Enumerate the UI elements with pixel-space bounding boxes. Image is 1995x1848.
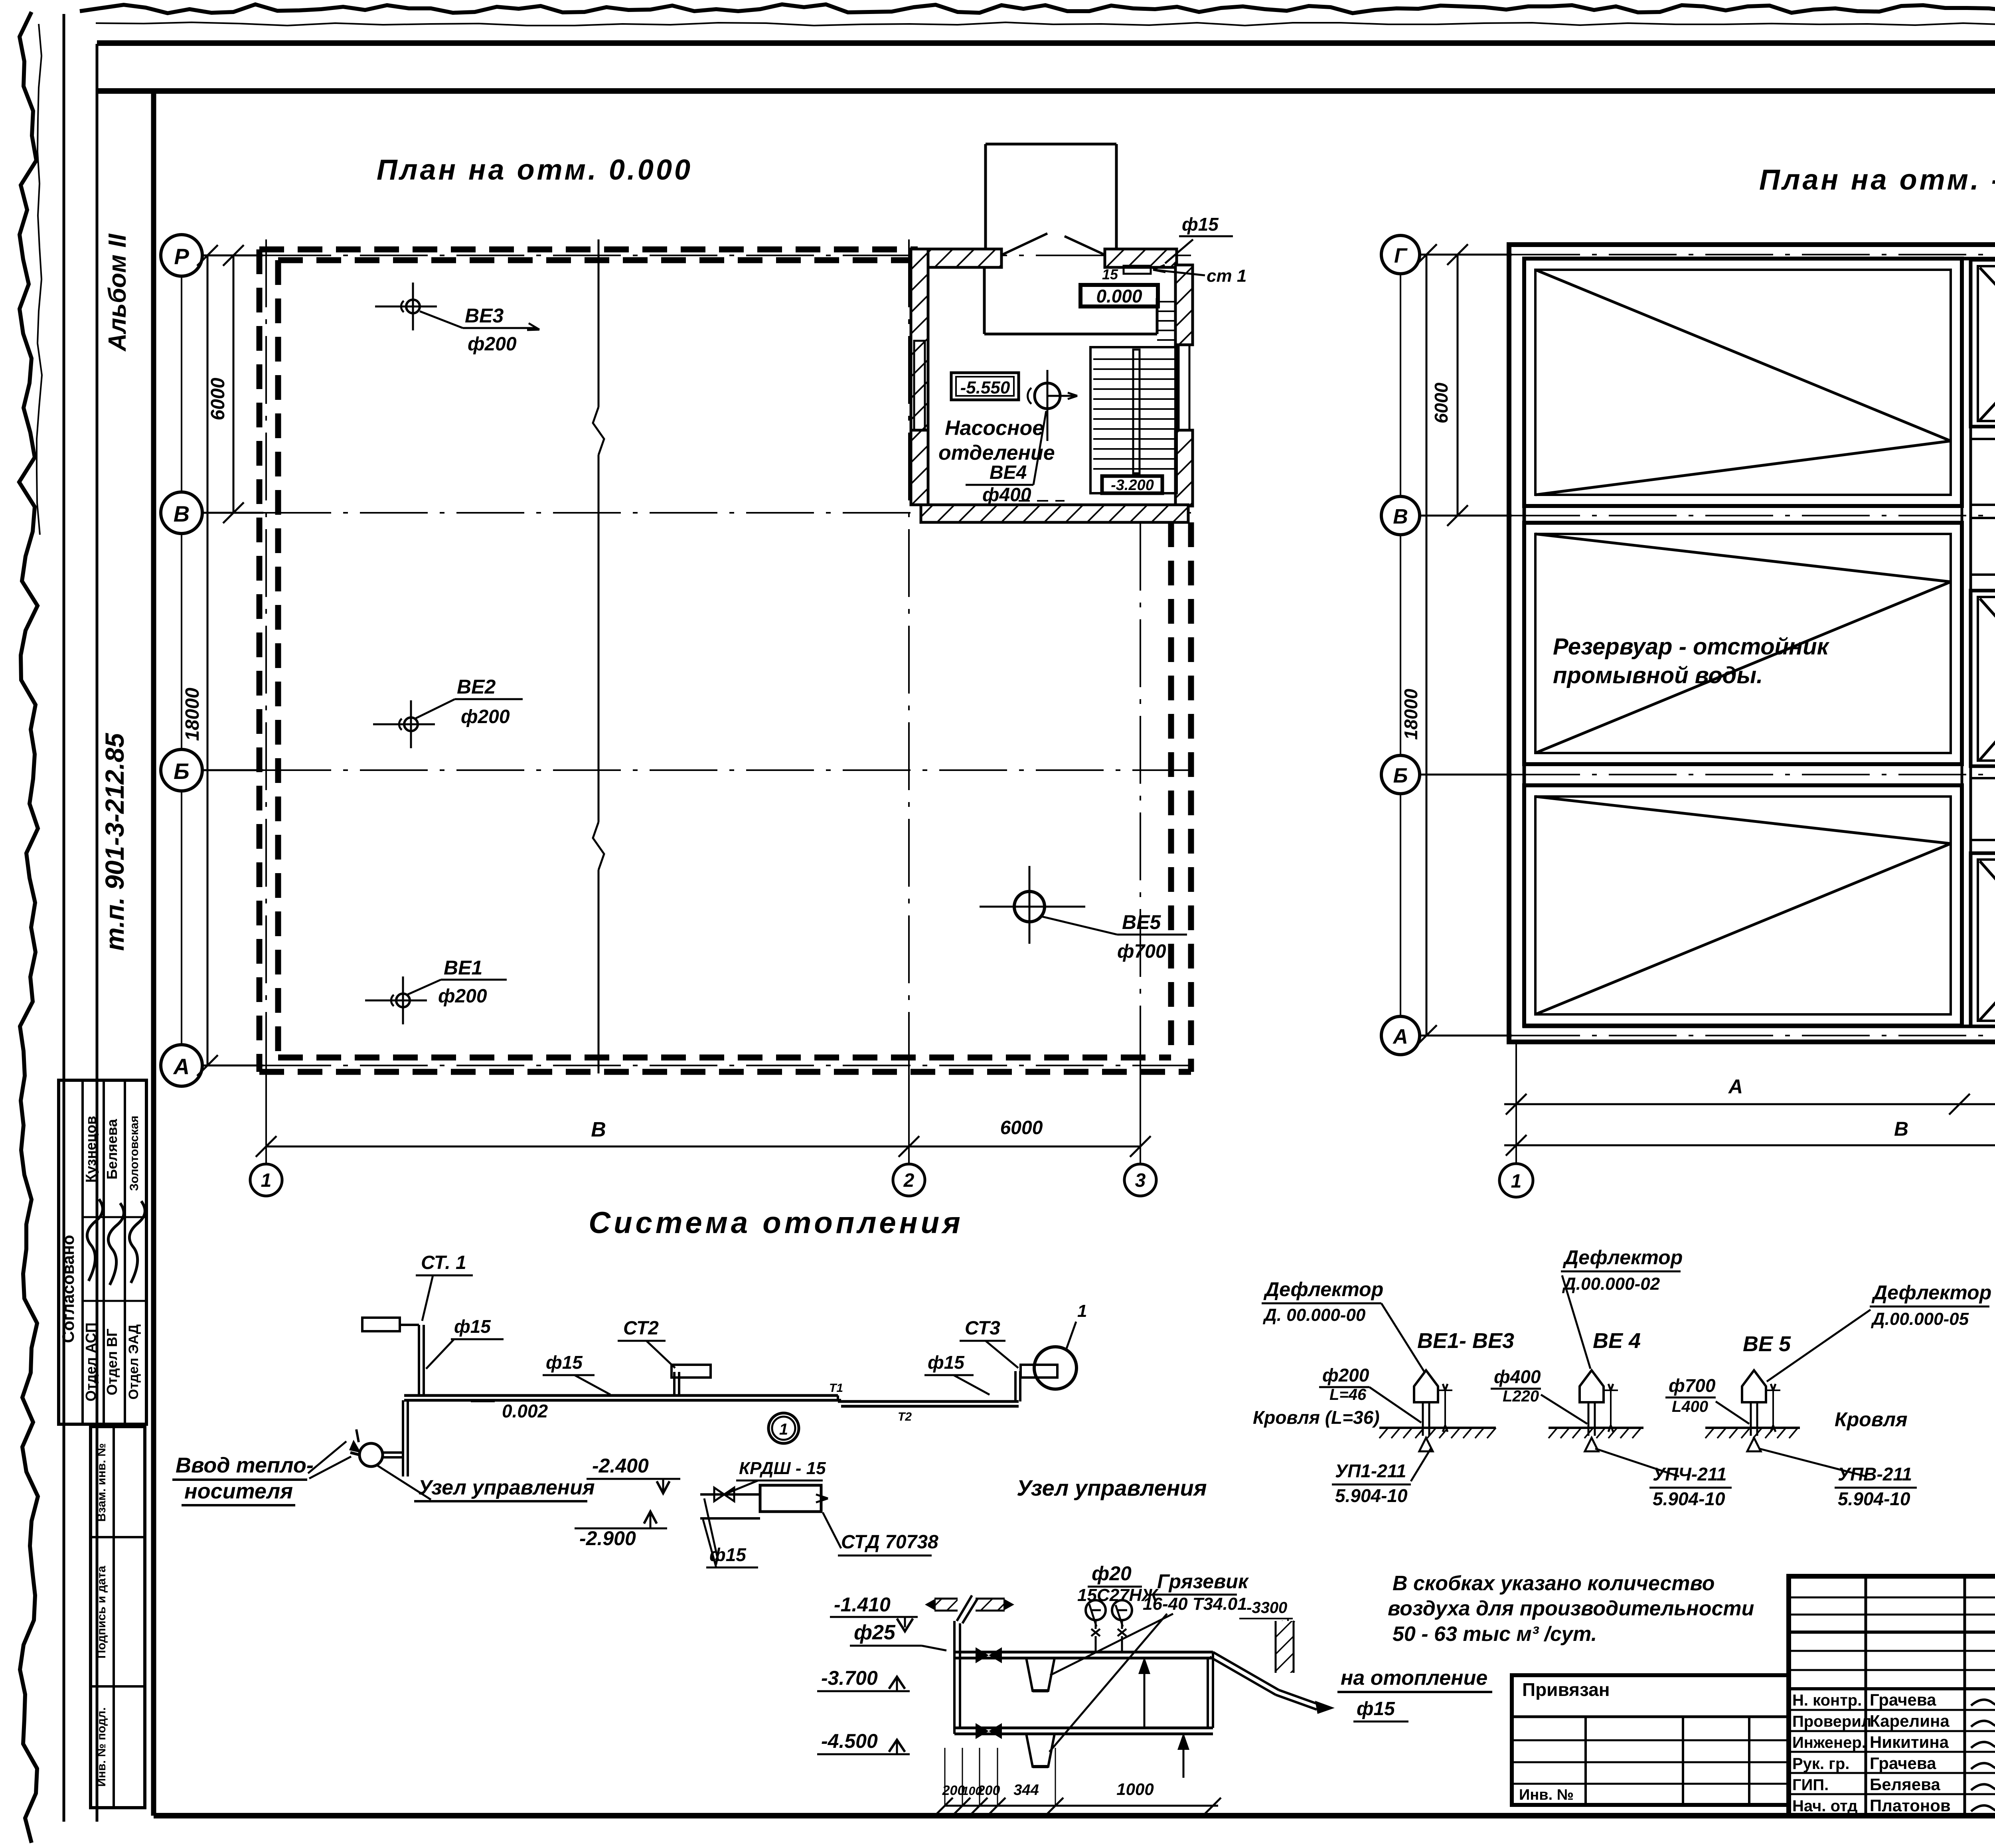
svg-text:1: 1 — [261, 1170, 272, 1191]
svg-text:18000: 18000 — [182, 688, 203, 741]
svg-text:ф200: ф200 — [468, 334, 517, 355]
svg-text:ф15: ф15 — [1182, 214, 1219, 235]
svg-text:15: 15 — [1102, 266, 1118, 283]
svg-text:Кровля (L=36): Кровля (L=36) — [1253, 1407, 1380, 1428]
svg-text:Беляева: Беляева — [1870, 1775, 1940, 1794]
svg-text:План на отм. 0.000: План на отм. 0.000 — [377, 154, 693, 186]
svg-text:носителя: носителя — [184, 1479, 293, 1503]
svg-text:Взам. инв. №: Взам. инв. № — [95, 1443, 108, 1522]
svg-text:В скобках указано количество: В скобках указано количество — [1393, 1572, 1715, 1595]
svg-text:ф15: ф15 — [546, 1352, 583, 1373]
svg-text:Согласовано: Согласовано — [59, 1235, 77, 1343]
svg-text:1: 1 — [1511, 1171, 1522, 1192]
svg-text:Г: Г — [1394, 244, 1408, 267]
svg-text:-3.200: -3.200 — [1111, 477, 1154, 494]
svg-text:ВЕ4: ВЕ4 — [990, 462, 1027, 483]
svg-text:-3.700: -3.700 — [821, 1667, 878, 1689]
svg-text:Рук. гр.: Рук. гр. — [1792, 1755, 1849, 1773]
svg-text:УПВ-211: УПВ-211 — [1838, 1464, 1912, 1484]
svg-text:0.002: 0.002 — [502, 1401, 548, 1421]
svg-text:В: В — [174, 501, 190, 526]
svg-text:6000: 6000 — [207, 378, 229, 420]
svg-text:СТ2: СТ2 — [623, 1318, 659, 1339]
svg-text:План на отм. -0.650: План на отм. -0.650 — [1759, 164, 1995, 196]
svg-text:Проверил: Проверил — [1792, 1713, 1871, 1730]
svg-text:Отдел АСП: Отдел АСП — [83, 1322, 99, 1401]
svg-text:Грязевик: Грязевик — [1157, 1570, 1249, 1593]
svg-text:Подпись и дата: Подпись и дата — [95, 1565, 108, 1658]
svg-text:А: А — [173, 1054, 190, 1079]
svg-text:Д. 00.000-00: Д. 00.000-00 — [1262, 1305, 1366, 1325]
svg-text:6000: 6000 — [1431, 382, 1452, 423]
svg-text:т.п. 901-3-212.85: т.п. 901-3-212.85 — [100, 733, 129, 951]
svg-text:СТ. 1: СТ. 1 — [421, 1252, 466, 1273]
svg-text:-1.410: -1.410 — [834, 1593, 891, 1616]
svg-text:Р: Р — [174, 244, 189, 269]
svg-text:Дефлектор: Дефлектор — [1562, 1246, 1683, 1269]
svg-text:Система отопления: Система отопления — [589, 1206, 964, 1240]
svg-text:ВЕ3: ВЕ3 — [465, 304, 504, 327]
svg-text:КРДШ - 15: КРДШ - 15 — [739, 1459, 826, 1478]
svg-text:ф700: ф700 — [1669, 1375, 1716, 1396]
svg-text:Золотовская: Золотовская — [128, 1116, 141, 1191]
svg-text:1: 1 — [779, 1421, 788, 1438]
svg-text:ф400: ф400 — [982, 484, 1031, 506]
svg-text:Д.00.000-05: Д.00.000-05 — [1871, 1309, 1969, 1329]
svg-text:ф200: ф200 — [1322, 1365, 1369, 1386]
svg-text:Грачева: Грачева — [1870, 1754, 1936, 1773]
svg-text:Привязан: Привязан — [1522, 1679, 1610, 1700]
svg-text:Инв. № подл.: Инв. № подл. — [95, 1707, 108, 1787]
svg-text:1: 1 — [1077, 1301, 1087, 1321]
svg-text:3: 3 — [1135, 1170, 1146, 1191]
svg-text:18000: 18000 — [1400, 689, 1421, 740]
svg-text:Кузнецов: Кузнецов — [83, 1116, 99, 1182]
svg-text:Альбом II: Альбом II — [104, 233, 131, 352]
svg-text:Нач. отд: Нач. отд — [1792, 1797, 1857, 1815]
svg-text:-2.900: -2.900 — [579, 1527, 636, 1550]
svg-text:ст 1: ст 1 — [1207, 266, 1246, 286]
svg-text:ф200: ф200 — [438, 986, 487, 1007]
svg-text:ф15: ф15 — [1357, 1698, 1395, 1720]
svg-text:1000: 1000 — [1116, 1780, 1154, 1799]
svg-text:Дефлектор: Дефлектор — [1263, 1278, 1383, 1301]
svg-text:ф700: ф700 — [1117, 941, 1166, 962]
svg-text:Узел управления: Узел управления — [418, 1476, 595, 1499]
svg-text:Б: Б — [1393, 764, 1408, 787]
svg-text:ВЕ 4: ВЕ 4 — [1593, 1329, 1641, 1353]
svg-text:ф15: ф15 — [928, 1352, 965, 1373]
svg-text:ВЕ5: ВЕ5 — [1122, 911, 1161, 933]
svg-text:Резервуар - отстойник: Резервуар - отстойник — [1553, 634, 1830, 660]
svg-text:Карелина: Карелина — [1870, 1712, 1950, 1730]
svg-text:ф20: ф20 — [1092, 1562, 1132, 1585]
svg-text:L400: L400 — [1672, 1398, 1708, 1415]
svg-text:L=46: L=46 — [1329, 1386, 1367, 1403]
svg-text:Отдел ВГ: Отдел ВГ — [104, 1328, 120, 1395]
svg-text:Ввод тепло-: Ввод тепло- — [176, 1453, 314, 1477]
svg-text:ВЕ2: ВЕ2 — [457, 676, 496, 698]
svg-text:Д.00.000-02: Д.00.000-02 — [1562, 1274, 1660, 1294]
svg-text:В: В — [1894, 1118, 1908, 1140]
svg-text:5.904-10: 5.904-10 — [1653, 1488, 1725, 1509]
svg-text:50 - 63 тыс м³ /сут.: 50 - 63 тыс м³ /сут. — [1393, 1623, 1597, 1646]
svg-text:Б: Б — [174, 759, 190, 784]
svg-text:Никитина: Никитина — [1870, 1733, 1949, 1751]
svg-text:на отопление: на отопление — [1341, 1666, 1487, 1690]
svg-text:В: В — [591, 1118, 606, 1141]
svg-text:Дефлектор: Дефлектор — [1871, 1281, 1991, 1304]
svg-text:Н. контр.: Н. контр. — [1792, 1692, 1862, 1709]
svg-text:воздуха для производительнос: воздуха для производительности — [1388, 1597, 1754, 1620]
svg-text:УП1-211: УП1-211 — [1335, 1461, 1406, 1481]
svg-text:6000: 6000 — [1000, 1117, 1043, 1138]
svg-text:ф15: ф15 — [454, 1316, 491, 1337]
svg-text:ф25: ф25 — [854, 1621, 896, 1644]
svg-text:200: 200 — [977, 1783, 1000, 1798]
svg-text:ф200: ф200 — [461, 706, 510, 727]
svg-text:УПЧ-211: УПЧ-211 — [1653, 1464, 1726, 1484]
svg-text:ВЕ1: ВЕ1 — [444, 957, 482, 979]
svg-text:5.904-10: 5.904-10 — [1335, 1485, 1408, 1506]
svg-text:-4.500: -4.500 — [821, 1730, 878, 1752]
svg-text:Платонов: Платонов — [1870, 1796, 1951, 1815]
svg-text:ВЕ1- ВЕ3: ВЕ1- ВЕ3 — [1417, 1329, 1514, 1353]
svg-text:5.904-10: 5.904-10 — [1838, 1488, 1910, 1509]
svg-text:344: 344 — [1013, 1782, 1039, 1799]
svg-text:ВЕ 5: ВЕ 5 — [1743, 1332, 1791, 1356]
svg-text:Т2: Т2 — [898, 1410, 912, 1423]
svg-text:-3300: -3300 — [1246, 1599, 1287, 1617]
svg-text:СТ3: СТ3 — [965, 1318, 1000, 1339]
svg-text:Насосное: Насосное — [945, 417, 1044, 440]
svg-text:Отдел ЭАД: Отдел ЭАД — [126, 1324, 141, 1399]
svg-text:Т1: Т1 — [829, 1382, 843, 1395]
svg-text:В: В — [1393, 505, 1408, 528]
svg-text:Инженер.: Инженер. — [1792, 1734, 1866, 1751]
svg-text:L220: L220 — [1503, 1387, 1539, 1405]
svg-text:ф400: ф400 — [1494, 1366, 1541, 1387]
svg-text:-5.550: -5.550 — [960, 378, 1010, 397]
svg-text:Узел управления: Узел управления — [1017, 1475, 1207, 1500]
svg-text:200: 200 — [942, 1783, 965, 1798]
svg-text:промывной воды.: промывной воды. — [1553, 662, 1763, 688]
svg-text:Инв. №: Инв. № — [1519, 1787, 1574, 1803]
svg-text:-2.400: -2.400 — [592, 1455, 649, 1477]
svg-text:2: 2 — [903, 1170, 915, 1191]
svg-text:СТД 70738: СТД 70738 — [841, 1532, 938, 1553]
svg-text:ГИП.: ГИП. — [1792, 1776, 1829, 1794]
svg-text:Беляева: Беляева — [104, 1119, 120, 1179]
svg-text:А: А — [1392, 1025, 1408, 1048]
svg-text:0.000: 0.000 — [1096, 286, 1142, 306]
svg-text:16-40 Т34.01: 16-40 Т34.01 — [1143, 1594, 1247, 1614]
svg-text:Кровля: Кровля — [1835, 1408, 1908, 1431]
svg-text:Грачева: Грачева — [1870, 1690, 1936, 1709]
svg-text:А: А — [1728, 1075, 1743, 1098]
